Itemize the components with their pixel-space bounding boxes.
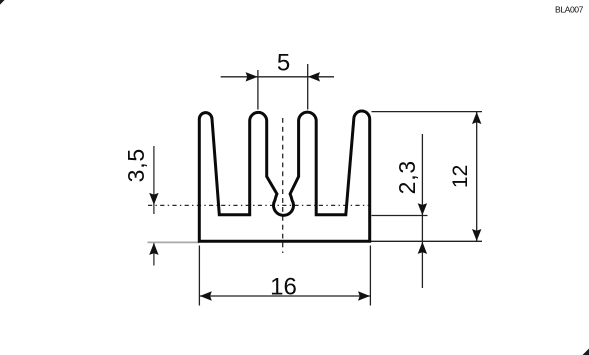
dim 2,3: up arrow at base bottom: [418, 242, 427, 254]
dim 5: right extension line (fin3 axis): [307, 64, 309, 110]
dim 5: left extension line (fin2 axis): [257, 70, 259, 110]
dim 12: up arrow: [472, 112, 481, 124]
dim 2,3: down arrow at groove bottom: [418, 203, 427, 215]
corner mark bottom-right: [583, 349, 589, 355]
dim 16: dimension line: [199, 295, 370, 297]
dim 12: dimension line: [476, 112, 478, 241]
dim 3,5: lower lead line: [153, 243, 155, 266]
dim 16: right-pointing arrow: [358, 291, 370, 300]
center line vertical (dash): [282, 118, 284, 253]
dim 16: left extension line: [198, 246, 200, 306]
dim 12: top extension line: [372, 111, 483, 113]
svg-text:5: 5: [277, 50, 290, 77]
center line horizontal (dash) through hole axis: [148, 204, 370, 206]
heatsink profile outline (4 fins, keyhole slot, base): [199, 111, 369, 241]
dim 2,3: lead line (through both arrows): [421, 134, 423, 288]
dim 3,5: gray extension of base bottom to the left: [148, 241, 200, 243]
dim 3,5: up arrow at base bottom: [149, 243, 158, 255]
svg-text:12: 12: [449, 165, 472, 188]
svg-text:3,5: 3,5: [123, 148, 149, 182]
dim 12: down arrow: [472, 229, 481, 241]
dim 16: right extension line: [369, 246, 371, 306]
dim 5: dimension line: [221, 76, 334, 78]
svg-text:2,3: 2,3: [394, 160, 420, 194]
dim 5: arrow left-pointing: [308, 72, 320, 81]
dim 12: bottom extension line (base bottom continued): [371, 240, 482, 242]
corner mark top-left: [0, 0, 5, 5]
svg-text:16: 16: [270, 273, 297, 300]
dim 16: left-pointing arrow: [200, 291, 212, 300]
dim 3,5: down arrow at hole axis: [149, 193, 158, 205]
dim 3,5: upper lead line: [153, 146, 155, 214]
svg-text:BLA007: BLA007: [555, 5, 584, 15]
dim 5: arrow right-pointing: [246, 72, 258, 81]
dim 2,3: groove-bottom extension line: [372, 215, 428, 217]
